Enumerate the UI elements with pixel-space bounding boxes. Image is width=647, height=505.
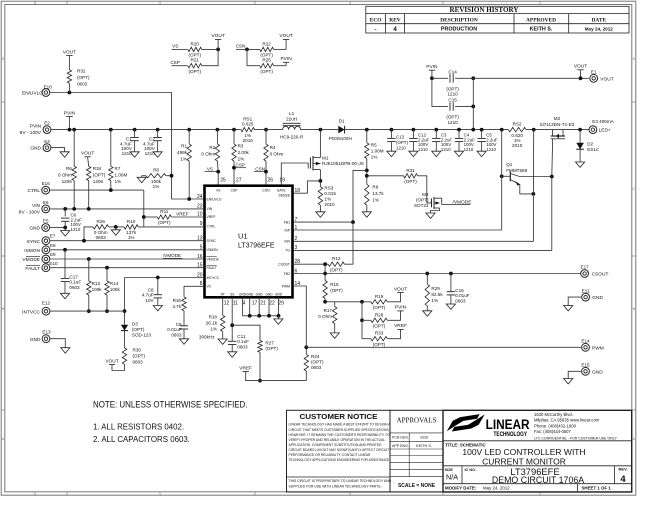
junction Q1 base/ISP bbox=[500, 174, 504, 178]
junction R3 top bbox=[232, 128, 236, 132]
ground under R18 bbox=[218, 339, 227, 344]
resistor R11 bbox=[157, 215, 171, 219]
wire R2 top bbox=[216, 130, 218, 144]
svg-text:(OPT): (OPT) bbox=[260, 69, 273, 74]
svg-text:CSOUT: CSOUT bbox=[592, 272, 609, 278]
svg-text:R26: R26 bbox=[97, 219, 106, 224]
svg-text:VOUT: VOUT bbox=[211, 33, 224, 39]
size/ic-no/rev row bbox=[461, 466, 463, 484]
wire Q1 base bbox=[502, 175, 510, 177]
svg-text:0.1uF: 0.1uF bbox=[237, 339, 249, 344]
svg-text:FB2: FB2 bbox=[284, 272, 290, 276]
svg-text:300kHz: 300kHz bbox=[199, 335, 215, 340]
wire rail RS2 to M2 bbox=[526, 129, 549, 131]
wire VREF line bbox=[246, 372, 307, 381]
svg-text:PVIN: PVIN bbox=[395, 305, 407, 311]
junction R34/VIN bbox=[87, 207, 91, 211]
wire M1 drain bbox=[319, 130, 321, 158]
svg-text:LTC CONFIDENTIAL - FOR CUSTOME: LTC CONFIDENTIAL - FOR CUSTOMER USE ONLY bbox=[534, 436, 617, 440]
flag PVIN at E2 bbox=[66, 116, 72, 118]
wire C9 bottom bbox=[183, 329, 185, 339]
wire C13 bottom bbox=[390, 142, 392, 152]
wire TG vertical bbox=[551, 141, 554, 250]
ground under D2 bbox=[576, 162, 585, 167]
svg-text:GND: GND bbox=[256, 292, 264, 296]
wire R2 bottom to pin25 bbox=[216, 161, 219, 186]
resistor R25 bbox=[260, 64, 274, 68]
svg-text:SOD-123: SOD-123 bbox=[132, 333, 152, 338]
flag PVIN C14 bbox=[429, 69, 435, 71]
wire INTVCC pin20 bbox=[125, 277, 205, 279]
svg-text:ISP: ISP bbox=[285, 228, 291, 232]
svg-text:2010: 2010 bbox=[243, 138, 254, 143]
terminal E16 circle bbox=[42, 186, 50, 194]
svg-text:PVIN: PVIN bbox=[426, 64, 438, 70]
wire VOUT line to E1 bbox=[473, 77, 589, 79]
wire R4 bottom to pin26 bbox=[265, 161, 267, 186]
svg-text:U1: U1 bbox=[238, 232, 248, 241]
ground under C2 bbox=[153, 152, 162, 157]
wire EN/UVLO from E18 bbox=[50, 93, 204, 200]
wire R17 vert bbox=[334, 302, 336, 307]
wire M1 source bbox=[319, 170, 321, 187]
svg-text:DEMO CIRCUIT 1706A: DEMO CIRCUIT 1706A bbox=[492, 475, 584, 485]
svg-text:0603: 0603 bbox=[77, 82, 88, 87]
svg-text:0603: 0603 bbox=[171, 332, 182, 337]
wire R6 top bbox=[73, 130, 75, 167]
svg-text:FAULT: FAULT bbox=[207, 266, 217, 270]
svg-text:E16: E16 bbox=[42, 181, 51, 186]
junction Q1 emitter/ISN bbox=[532, 192, 536, 196]
wire R31 to M3 gate bbox=[418, 176, 432, 203]
wire gnd stub R26 bbox=[115, 227, 117, 230]
svg-text:19: 19 bbox=[279, 177, 285, 183]
svg-text:/VMODE: /VMODE bbox=[163, 253, 181, 258]
resistor RS1 bbox=[241, 127, 255, 131]
wire R8 gnd stub bbox=[142, 175, 146, 177]
junction C14 right bbox=[471, 76, 475, 80]
capacitor C1 bbox=[130, 137, 138, 139]
flag VOUT R20 bbox=[215, 38, 221, 40]
svg-text:E4: E4 bbox=[44, 139, 50, 144]
svg-text:C15: C15 bbox=[448, 97, 457, 102]
svg-text:0 Ohm: 0 Ohm bbox=[270, 152, 284, 157]
svg-text:E1: E1 bbox=[591, 69, 597, 74]
svg-text:1%: 1% bbox=[238, 157, 245, 162]
wire network vert bbox=[361, 302, 363, 339]
wire D2 top bbox=[579, 130, 581, 143]
svg-text:2: 2 bbox=[295, 236, 298, 242]
terminal E5 circle bbox=[42, 224, 50, 232]
wire M3 source to gnd bbox=[431, 208, 440, 213]
svg-text:FMMT589: FMMT589 bbox=[506, 168, 527, 173]
svg-text:R24: R24 bbox=[311, 354, 320, 359]
svg-text:1%: 1% bbox=[180, 157, 187, 162]
svg-text:1210: 1210 bbox=[441, 147, 451, 152]
wire R19 to VOUT flag bbox=[387, 293, 400, 302]
wire R14 vert bbox=[106, 268, 108, 281]
terminal E8 circle bbox=[42, 246, 50, 254]
wire C15 branch left bbox=[432, 78, 448, 106]
flag VREF C11 bbox=[243, 371, 249, 373]
resistor R1 bbox=[187, 144, 191, 161]
resistor R28 bbox=[371, 318, 388, 322]
wire R34 bottom bbox=[88, 181, 90, 209]
svg-text:21: 21 bbox=[260, 301, 266, 307]
resistor R9 bbox=[365, 184, 369, 205]
wire VOUT flag stub E1 bbox=[580, 70, 582, 79]
wire R1 bottom to pin24 bbox=[188, 161, 190, 199]
svg-text:(OPT): (OPT) bbox=[93, 173, 106, 178]
svg-text:0.025: 0.025 bbox=[242, 122, 254, 127]
wire ISN pin2 bbox=[293, 240, 534, 242]
svg-text:1210: 1210 bbox=[396, 145, 406, 150]
wire SENSE pin18 bbox=[293, 181, 321, 193]
svg-text:THIS CIRCUIT IS PROPRIETARY TO: THIS CIRCUIT IS PROPRIETARY TO LINEAR TE… bbox=[289, 479, 392, 483]
svg-text:R29: R29 bbox=[431, 286, 440, 291]
svg-text:N/A: N/A bbox=[446, 473, 458, 482]
junction R24/PWM line bbox=[304, 345, 308, 349]
wire R29 bottom bbox=[426, 306, 428, 311]
title block bbox=[443, 410, 632, 492]
svg-text:R32: R32 bbox=[77, 69, 86, 74]
svg-text:1%: 1% bbox=[324, 197, 331, 202]
svg-text:LT3796EFE: LT3796EFE bbox=[238, 241, 275, 250]
junction C4 top bbox=[457, 128, 461, 132]
wire C5 top bbox=[481, 130, 483, 138]
junction R6 top bbox=[72, 128, 76, 132]
junction R26/R10 gnd bbox=[114, 225, 118, 229]
svg-text:R33: R33 bbox=[375, 331, 384, 336]
junction R11 left bbox=[142, 215, 146, 219]
terminal E18 circle bbox=[42, 89, 50, 97]
svg-text:E11: E11 bbox=[582, 288, 590, 293]
resistor RS3 bbox=[318, 187, 322, 206]
svg-text:29: 29 bbox=[278, 301, 284, 307]
svg-text:VOUT: VOUT bbox=[574, 64, 587, 70]
svg-text:E14: E14 bbox=[581, 338, 590, 343]
resistor RS2 bbox=[508, 127, 526, 131]
svg-text:MODIFY DATE:: MODIFY DATE: bbox=[445, 486, 477, 491]
wire R5 top bbox=[366, 130, 368, 143]
svg-text:TG: TG bbox=[285, 249, 290, 253]
svg-text:0603: 0603 bbox=[311, 365, 322, 370]
flag VOUT R22 bbox=[283, 38, 289, 40]
svg-text:B: B bbox=[633, 307, 635, 311]
ground under C8 bbox=[153, 306, 162, 311]
svg-text:GND: GND bbox=[29, 226, 40, 232]
junction RS2 left bbox=[500, 128, 504, 132]
wire R24 bottom vert bbox=[305, 371, 307, 381]
svg-text:1210: 1210 bbox=[447, 92, 458, 97]
svg-text:R16: R16 bbox=[173, 298, 182, 303]
junction C6 top bbox=[63, 207, 67, 211]
svg-text:CSP: CSP bbox=[170, 60, 179, 65]
svg-text:LINEAR TECHNOLOGY HAS MADE A B: LINEAR TECHNOLOGY HAS MADE A BEST EFFORT… bbox=[289, 423, 392, 427]
junction C8 top bbox=[156, 276, 160, 280]
svg-text:25: 25 bbox=[220, 177, 226, 183]
junction C15 right bbox=[471, 105, 475, 109]
wire R27 bottom bbox=[259, 352, 261, 380]
svg-text:R30: R30 bbox=[133, 348, 142, 353]
svg-text:VS: VS bbox=[172, 44, 178, 49]
svg-text:GND: GND bbox=[592, 369, 603, 375]
svg-text:CTRL: CTRL bbox=[207, 225, 216, 229]
terminal E12 circle bbox=[42, 307, 50, 315]
terminal E2 circle bbox=[43, 126, 51, 134]
svg-text:RJK1051DPB-00-JS: RJK1051DPB-00-JS bbox=[322, 161, 364, 166]
svg-text:NOTE: UNLESS OTHERWISE SPECIFI: NOTE: UNLESS OTHERWISE SPECIFIED. bbox=[93, 400, 248, 410]
wire VMODE pin16 bbox=[50, 258, 204, 260]
svg-text:4: 4 bbox=[393, 26, 397, 33]
svg-text:CSN: CSN bbox=[262, 189, 270, 193]
capacitor C11 bbox=[228, 340, 236, 342]
junction VOUT line to rail bbox=[471, 128, 475, 132]
ground R26/R10 bbox=[111, 230, 120, 235]
svg-text:R28: R28 bbox=[375, 312, 384, 317]
wire gnd stub E5 bbox=[64, 228, 66, 231]
wire CTRL corner down bbox=[143, 190, 145, 226]
wire D3 vert bbox=[124, 278, 126, 312]
svg-text:EN/UVLO: EN/UVLO bbox=[207, 197, 222, 201]
op-amp U1 LT3796EFE block bbox=[205, 186, 293, 298]
junction R14/INTVCC bbox=[105, 309, 109, 313]
svg-text:E8: E8 bbox=[50, 243, 56, 248]
wire C11 bottom bbox=[231, 345, 233, 352]
capacitor C14 bbox=[449, 74, 451, 82]
svg-text:11: 11 bbox=[233, 301, 238, 307]
svg-text:R14: R14 bbox=[110, 281, 119, 286]
capacitor C8 bbox=[154, 294, 162, 296]
wire PWM line to E14 bbox=[306, 346, 581, 348]
svg-text:PVIN: PVIN bbox=[64, 110, 76, 116]
svg-text:VOUT: VOUT bbox=[600, 76, 613, 82]
svg-text:VC: VC bbox=[207, 285, 212, 289]
svg-text:CSP: CSP bbox=[231, 189, 239, 193]
wire C2 top bbox=[157, 130, 159, 137]
wire R15 vert top bbox=[324, 264, 326, 280]
svg-text:1210: 1210 bbox=[464, 147, 474, 152]
svg-text:2.00k: 2.00k bbox=[238, 150, 250, 155]
svg-text:ISN: ISN bbox=[284, 240, 290, 244]
svg-text:R15: R15 bbox=[330, 282, 339, 287]
svg-text:R22: R22 bbox=[262, 41, 271, 46]
resistor R30 bbox=[122, 348, 126, 364]
wire R18 bottom bbox=[222, 332, 224, 340]
svg-text:APPROVED: APPROVED bbox=[526, 17, 556, 23]
capacitor C9 bbox=[180, 325, 188, 327]
junction R13 top bbox=[87, 257, 91, 261]
wire TG pin3 bbox=[293, 249, 552, 251]
svg-text:(OPT): (OPT) bbox=[133, 354, 146, 359]
svg-text:GND: GND bbox=[275, 292, 283, 296]
junction C13 top bbox=[390, 128, 394, 132]
wire R7 bottom bbox=[110, 181, 112, 191]
wire D3 top stub bbox=[124, 311, 126, 325]
svg-text:GATE: GATE bbox=[277, 189, 287, 193]
inductor L1 bbox=[283, 126, 301, 129]
junction R1/pin24 bbox=[187, 197, 191, 201]
svg-text:GND: GND bbox=[592, 295, 603, 301]
svg-text:ISMON: ISMON bbox=[207, 248, 219, 252]
capacitor C4 bbox=[455, 137, 463, 139]
svg-text:R6: R6 bbox=[66, 166, 72, 171]
svg-text:KEITH S.: KEITH S. bbox=[416, 444, 432, 448]
wire R6 bottom bbox=[73, 181, 75, 209]
wire rail D1 to RS2 bbox=[345, 129, 509, 131]
wire R30 to VOUT flag bbox=[112, 364, 125, 370]
svg-text:1%: 1% bbox=[371, 155, 378, 160]
svg-text:(OPT): (OPT) bbox=[132, 327, 145, 332]
wire CSN down to R25 bbox=[247, 49, 260, 65]
junction CSN node bbox=[245, 48, 249, 52]
junction FB1 tap bbox=[365, 169, 369, 173]
svg-text:GND: GND bbox=[30, 337, 41, 343]
customer notice block bbox=[287, 410, 391, 492]
wire SYNC pin13 bbox=[50, 240, 204, 242]
svg-text:0 Ohm: 0 Ohm bbox=[318, 314, 332, 319]
svg-text:10: 10 bbox=[197, 211, 203, 217]
svg-text:(OPT): (OPT) bbox=[311, 360, 324, 365]
svg-text:4: 4 bbox=[349, 1, 351, 5]
terminal E17 circle bbox=[581, 270, 589, 278]
svg-text:ES1C: ES1C bbox=[587, 147, 600, 152]
wire INTVCC rail E12 bbox=[50, 310, 124, 312]
wire E11 to gnd bbox=[568, 297, 581, 305]
resistor R31 bbox=[404, 174, 418, 178]
junction FB1/R12 bbox=[351, 220, 355, 224]
wire C12 bottom bbox=[412, 142, 414, 152]
wire C4 bottom bbox=[458, 142, 460, 152]
resistor R3 bbox=[232, 144, 236, 161]
wire C17 bottom bbox=[64, 282, 66, 294]
junction PVIN flag bbox=[68, 128, 72, 132]
svg-text:4: 4 bbox=[620, 473, 626, 484]
svg-text:R3: R3 bbox=[238, 144, 244, 149]
resistor R19 bbox=[371, 300, 388, 304]
svg-text:SS: SS bbox=[230, 292, 234, 296]
svg-text:(OPT): (OPT) bbox=[416, 198, 429, 203]
svg-text:PWM: PWM bbox=[592, 345, 604, 351]
terminal E10 circle bbox=[42, 264, 50, 272]
wire R3 bottom to pin27 bbox=[233, 161, 235, 186]
flag PVIN R25 bbox=[283, 61, 289, 63]
wire RS3 bottom bbox=[319, 205, 321, 212]
svg-text:HOWEVER, IT REMAINS THE CUSTOM: HOWEVER, IT REMAINS THE CUSTOMER'S RESPO… bbox=[289, 433, 390, 437]
svg-text:VMODE: VMODE bbox=[207, 257, 220, 261]
svg-text:1.00M: 1.00M bbox=[115, 173, 128, 178]
resistor R14 bbox=[105, 281, 109, 295]
svg-text:APPROVALS: APPROVALS bbox=[397, 417, 437, 425]
junction C3 top bbox=[434, 128, 438, 132]
svg-text:INTVCC: INTVCC bbox=[22, 309, 40, 315]
wire C3 bottom bbox=[435, 142, 437, 152]
wire VS to R20 bbox=[172, 48, 188, 50]
junction pin28/R15 bbox=[323, 262, 327, 266]
wire VOUT vertical to rail bbox=[472, 78, 474, 129]
terminal E1 circle bbox=[590, 74, 598, 82]
wire VOUT flag R20 bbox=[217, 39, 219, 49]
wire R11 left bbox=[144, 216, 158, 218]
wire R12 to FB1 node bbox=[344, 222, 353, 264]
svg-text:(OPT): (OPT) bbox=[404, 179, 417, 184]
svg-text:TECHNOLOGY: TECHNOLOGY bbox=[494, 432, 528, 438]
terminal E7 circle bbox=[42, 237, 50, 245]
wire CSOUT line pin6 to E17 bbox=[293, 273, 581, 275]
wire R8 to EN/UVLO bbox=[166, 175, 172, 177]
svg-text:8V - 100V: 8V - 100V bbox=[19, 209, 41, 215]
resistor R33 bbox=[371, 337, 388, 341]
svg-text:(OPT): (OPT) bbox=[265, 346, 278, 351]
svg-text:VIN: VIN bbox=[32, 203, 41, 209]
junction C14 left bbox=[430, 76, 434, 80]
svg-text:CSP: CSP bbox=[236, 162, 245, 167]
junction R7/E16 bbox=[109, 188, 113, 192]
terminal E11 circle bbox=[582, 293, 590, 301]
svg-text:May 24, 2012: May 24, 2012 bbox=[483, 486, 510, 491]
svg-text:1%: 1% bbox=[431, 298, 438, 303]
approvals block bbox=[390, 410, 443, 492]
wire R19 row bbox=[362, 301, 371, 303]
wire Q1 emitter bbox=[510, 180, 533, 194]
wire R3 top bbox=[233, 130, 235, 144]
junction R5 top bbox=[365, 128, 369, 132]
svg-text:2. ALL CAPACITORS 0603.: 2. ALL CAPACITORS 0603. bbox=[93, 434, 190, 444]
svg-text:E6: E6 bbox=[43, 200, 49, 205]
svg-text:M1: M1 bbox=[322, 155, 329, 160]
svg-text:GND: GND bbox=[246, 292, 254, 296]
junction R19 left bbox=[360, 300, 364, 304]
resistor R4 bbox=[264, 144, 268, 161]
svg-text:6: 6 bbox=[34, 1, 36, 5]
svg-text:PWM: PWM bbox=[282, 284, 290, 288]
wire U1 gnd pin at x=242.5 bbox=[242, 297, 244, 316]
flag PVIN R28 bbox=[397, 310, 403, 312]
wire C4 top bbox=[458, 130, 460, 138]
svg-text:26: 26 bbox=[268, 177, 274, 183]
svg-text:100k: 100k bbox=[92, 287, 103, 292]
svg-text:SUPPLIED FOR USE WITH LINEAR T: SUPPLIED FOR USE WITH LINEAR TECHNOLOGY … bbox=[289, 484, 382, 488]
svg-text:VOUT: VOUT bbox=[63, 49, 76, 55]
svg-text:Si7113DN-T1-E3: Si7113DN-T1-E3 bbox=[540, 122, 575, 127]
wire gnd bus stub bbox=[277, 316, 279, 319]
svg-text:CSOUT: CSOUT bbox=[278, 263, 290, 267]
wire C17 top bbox=[64, 250, 66, 278]
terminal E6 circle bbox=[42, 205, 50, 213]
svg-text:CIRCUIT BOARD LAYOUT MAY SIGNI: CIRCUIT BOARD LAYOUT MAY SIGNIFICANTLY A… bbox=[289, 448, 390, 452]
junction R28 left bbox=[360, 318, 364, 322]
wire FB1 pin7 bbox=[293, 170, 367, 222]
wire M3 drain stub bbox=[440, 198, 442, 204]
svg-text:INTVCC: INTVCC bbox=[207, 276, 220, 280]
svg-text:8V - 100V: 8V - 100V bbox=[20, 130, 42, 136]
svg-text:SCB: SCB bbox=[420, 436, 428, 440]
wire R33 row bbox=[362, 338, 371, 340]
wire CTRL from E16 bbox=[50, 189, 144, 191]
wire Q1 collector bbox=[510, 174, 552, 177]
ground under RS3 bbox=[316, 212, 325, 217]
svg-text:D1: D1 bbox=[339, 119, 345, 124]
wire C14 right to VOUT line bbox=[455, 77, 473, 79]
svg-text:R25: R25 bbox=[262, 58, 271, 63]
svg-text:RS2: RS2 bbox=[513, 122, 522, 127]
wire rail RS1 to L1 bbox=[255, 129, 283, 131]
wire E13 to gnd bbox=[50, 339, 65, 348]
ground at E4 bbox=[60, 152, 69, 157]
wire U1 gnd pin at x=249.7 bbox=[249, 297, 251, 316]
junction E5/C6/gnd bbox=[63, 226, 67, 230]
wire R10 to CTRL pin9 bbox=[138, 226, 204, 228]
